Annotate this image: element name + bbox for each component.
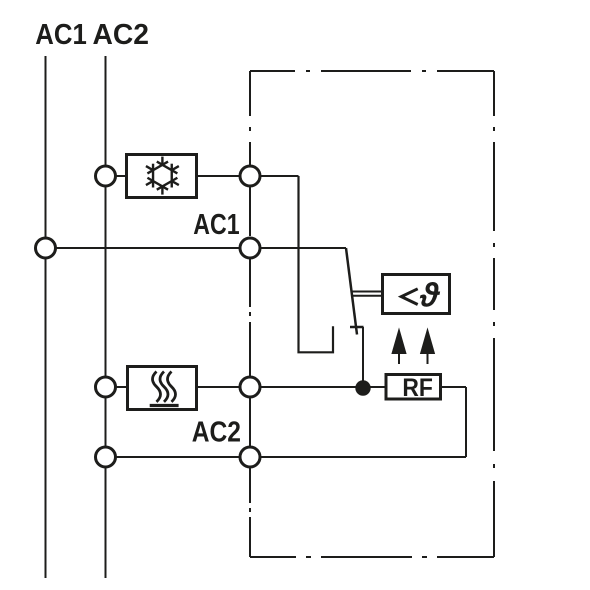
- svg-text:AC2: AC2: [192, 417, 241, 449]
- svg-text:AC2: AC2: [93, 19, 150, 51]
- svg-text:RF: RF: [402, 374, 433, 402]
- svg-text:AC1: AC1: [35, 19, 87, 51]
- svg-text:ϑ: ϑ: [419, 277, 441, 314]
- svg-text:AC1: AC1: [193, 209, 239, 241]
